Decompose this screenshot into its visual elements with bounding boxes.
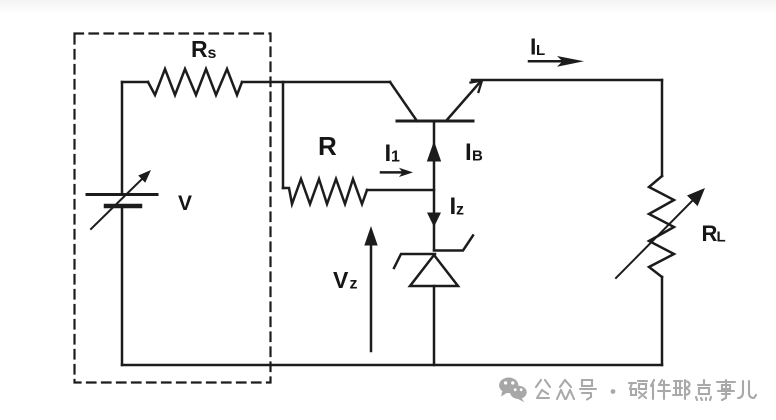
resistor RS [148, 69, 242, 95]
IL current arrow shaft [529, 60, 566, 63]
svg-text:z: z [350, 276, 358, 293]
bottom wire [122, 364, 662, 367]
node junction at top of R branch [282, 82, 285, 188]
char zhong [557, 380, 574, 399]
svg-text:R: R [191, 36, 208, 62]
svg-text:B: B [472, 148, 483, 165]
watermark text (approximated CJK strokes) [536, 380, 756, 400]
IZ current arrowhead (down) [427, 213, 441, 228]
IL arrowhead [557, 56, 584, 67]
char jian [651, 380, 670, 399]
char na [673, 380, 690, 399]
VZ arrowhead (up) [364, 226, 377, 246]
wire base vertical down to zener [433, 121, 436, 250]
svg-text:L: L [536, 42, 545, 59]
wire emitter to top-right corner [472, 79, 662, 82]
char ying [629, 381, 647, 398]
middle dot [611, 389, 616, 394]
battery V short plate [106, 204, 140, 209]
wire top-left horizontal to RS [122, 81, 148, 84]
IB current arrowhead (up) [427, 141, 441, 162]
svg-text:R: R [318, 131, 337, 161]
svg-text:z: z [456, 202, 464, 219]
svg-text:R: R [702, 221, 718, 246]
battery V variable arrow shaft [91, 178, 143, 229]
svg-text:L: L [717, 229, 726, 246]
wire battery bottom lead [121, 206, 124, 365]
VZ measurement arrow shaft [370, 241, 373, 351]
wire battery top lead [121, 82, 124, 193]
transistor Q1 emitter open arrowhead [471, 81, 483, 93]
watermark wechat icon [499, 378, 527, 403]
char dian [696, 380, 711, 400]
svg-text:V: V [333, 267, 349, 293]
dashed enclosure box around unregulated source [75, 34, 271, 383]
char hao [580, 380, 596, 400]
wire R to base line [367, 189, 434, 192]
wire RL to bottom [661, 277, 664, 365]
resistor RL (variable load) [649, 176, 674, 277]
wire right branch down to RL [661, 80, 664, 176]
char shi [717, 380, 735, 400]
battery V variable arrowhead [138, 170, 151, 183]
svg-text:s: s [208, 45, 217, 62]
svg-text:V: V [178, 192, 192, 215]
zener diode D1 cathode bar left half with hook [394, 254, 435, 268]
wire zener anode to bottom wire [433, 286, 436, 365]
transistor Q1 emitter lead [446, 81, 481, 121]
transistor Q1 collector lead [390, 82, 417, 121]
char er [738, 381, 756, 398]
wire RS to collector corner [242, 81, 390, 84]
I1 arrowhead [399, 168, 413, 177]
char gong [536, 380, 550, 398]
resistor R [283, 179, 367, 204]
svg-text:1: 1 [391, 149, 400, 166]
battery V long plate [87, 193, 157, 196]
zener diode D1 cathode bar right half with hook [434, 236, 473, 251]
zener diode D1 anode triangle [410, 255, 458, 286]
RL variable arrowhead [687, 188, 705, 206]
svg-text:I: I [465, 139, 472, 166]
I1 current arrow shaft [381, 171, 402, 174]
transistor Q1 base bar [397, 120, 473, 123]
RL variable arrow shaft [616, 199, 694, 278]
